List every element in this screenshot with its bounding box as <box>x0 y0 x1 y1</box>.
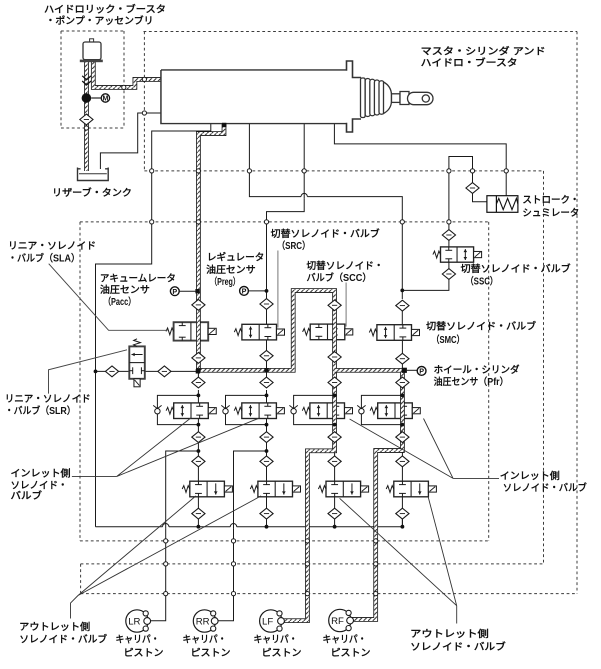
svg-text:アキュームレータ: アキュームレータ <box>100 272 176 284</box>
junction node: bypass bottom <box>333 423 337 427</box>
svg-text:切替ソレノイド・: 切替ソレノイド・ <box>307 259 384 272</box>
check/filter diamond: SCC bottom <box>328 352 341 363</box>
boundary crossing node: pump box right <box>122 85 126 89</box>
svg-text:レギュレータ: レギュレータ <box>207 251 265 264</box>
boundary crossing node: top boundary x=304.2 <box>302 169 306 173</box>
pressure sensor Pacc <box>170 287 179 296</box>
svg-text:・バルブ（SLA）: ・バルブ（SLA） <box>8 251 80 264</box>
svg-text:油圧センサ: 油圧センサ <box>100 283 150 296</box>
svg-text:インレット側: インレット側 <box>500 469 560 482</box>
svg-text:切替ソレノイド・バルブ: 切替ソレノイド・バルブ <box>271 227 380 240</box>
junction node: bypass top <box>265 394 269 398</box>
svg-text:切替ソレノイド・バルブ: 切替ソレノイド・バルブ <box>461 262 571 275</box>
junction node: bypass top <box>333 394 337 398</box>
dashed boundary: pump box right <box>123 31 125 128</box>
check valve inlet valve 4 bypass <box>357 405 365 414</box>
junction node: SLR branch <box>94 370 98 374</box>
check/filter diamond: SSC top <box>442 230 455 241</box>
wire: filter line to stroke simulator <box>473 171 487 202</box>
svg-text:ストローク・: ストローク・ <box>522 194 579 206</box>
dashed boundary: actuator assembly lower-left <box>80 564 82 594</box>
dashed boundary: hydraulic unit right <box>543 171 545 564</box>
high-pressure pipe (hatched): through valve SCC <box>332 323 337 340</box>
check/filter diamond: outlet supply <box>396 456 409 467</box>
svg-text:RF: RF <box>331 616 344 627</box>
svg-text:（Preg）: （Preg） <box>210 275 240 288</box>
check/filter diamond: SLR left <box>105 366 118 377</box>
solenoid valve switching solenoid valve SCC <box>303 324 353 340</box>
check/filter diamond: SMC bottom <box>396 353 409 364</box>
svg-text:・バルブ（SLR）: ・バルブ（SLR） <box>5 404 76 417</box>
master cylinder and hydro booster body <box>161 61 361 132</box>
check/filter diamond: inlet return <box>328 432 341 443</box>
boundary crossing node: valve block top x=151.7 <box>150 220 154 224</box>
svg-text:LR: LR <box>128 617 140 628</box>
wire: outlet valve 3 bottom <box>334 496 336 527</box>
wire: branch to caliper LR <box>151 451 199 621</box>
boundary crossing node: unit bottom x=375.7 <box>374 562 378 566</box>
wire: (diamond gap) inlet valve 4 top <box>401 379 403 390</box>
wire: inlet valve 3 bottom chain <box>334 418 336 447</box>
wire: pipe to inlet valve 2 <box>266 370 268 403</box>
check/filter diamond: outlet supply <box>192 456 205 467</box>
solenoid valve inlet solenoid valve 1 <box>166 403 216 419</box>
svg-text:ホイール・シリンダ: ホイール・シリンダ <box>434 363 520 376</box>
svg-text:（SSC）: （SSC） <box>466 275 498 288</box>
wire: leader: SLR label <box>49 350 128 394</box>
dashed boundary: valve block bottom <box>80 540 489 542</box>
boundary crossing node: assembly bottom x=375.7 <box>374 592 378 596</box>
solenoid valve inlet solenoid valve 2 <box>234 403 284 419</box>
svg-text:キャリパ・: キャリパ・ <box>116 633 160 645</box>
svg-text:ハイドロリック・ブースタ: ハイドロリック・ブースタ <box>44 3 166 16</box>
dashed boundary: actuator assembly right <box>576 32 578 594</box>
pressure sensor Preg <box>240 287 249 296</box>
boundary crossing node: top boundary x=448.9 <box>447 169 451 173</box>
check/filter diamond: outlet supply <box>328 456 341 467</box>
boundary crossing node: assembly bottom x=165.7 <box>164 592 168 596</box>
wire: master cylinder port to switching valve SMC <box>249 124 402 300</box>
wire: pipe elbow to outlet valve 3 <box>334 452 336 481</box>
wire: inlet valve 2 bypass loop <box>226 395 267 424</box>
junction node: bypass top <box>197 394 201 398</box>
pipe junction block: MC booster port <box>222 123 226 127</box>
wire: SMC valve to front pipe <box>401 341 403 369</box>
svg-text:ピストン: ピストン <box>191 647 231 659</box>
svg-text:（SMC）: （SMC） <box>432 333 465 346</box>
dashed boundary: pump box top <box>61 30 124 32</box>
junction node: return line junction <box>265 525 269 529</box>
wire hop (no connection) at SMC feed over SRC feed <box>301 193 307 198</box>
caliper piston RF <box>329 609 354 631</box>
svg-text:ソレノイド・: ソレノイド・ <box>11 480 68 492</box>
pipe junction block: pipe junction SRC <box>264 368 268 372</box>
svg-text:P: P <box>419 367 424 376</box>
caliper piston LR <box>126 610 151 632</box>
wire: inlet valve 2 bottom chain <box>266 418 268 482</box>
linear solenoid valve linear solenoid valve SLR (vertical) <box>129 339 145 387</box>
wire: master cylinder to stroke simulator <box>334 124 506 196</box>
svg-text:ピストン: ピストン <box>262 647 302 659</box>
stroke simulator <box>487 196 518 213</box>
solenoid valve outlet solenoid valve 2 <box>250 481 300 497</box>
junction node: bypass bottom <box>197 423 201 427</box>
wire: master cylinder port to switching valve SRC <box>267 124 305 299</box>
boundary crossing node: unit bottom x=233.5 <box>231 562 235 566</box>
junction node: return line junction <box>401 525 405 529</box>
svg-text:P: P <box>242 287 247 296</box>
boundary crossing node: valve block top x=402.3 <box>400 220 404 224</box>
wire: linear solenoid valve SLR branch <box>96 370 198 372</box>
check/filter diamond: inlet return <box>260 432 273 443</box>
caliper piston RR <box>193 610 218 632</box>
pressure sensor Pfr <box>417 367 426 376</box>
svg-text:ピストン: ピストン <box>331 647 371 659</box>
wire hop (no connection) at return over RR branch <box>230 524 236 529</box>
svg-text:アウトレット側: アウトレット側 <box>19 620 90 633</box>
solenoid valve inlet solenoid valve 3 <box>302 403 352 419</box>
boundary crossing node: top boundary x=472.5 <box>470 169 474 173</box>
high-pressure pipe (hatched): through inlet valve 4 <box>400 402 405 419</box>
boundary crossing node: valve block bottom x=165.7 <box>164 539 168 543</box>
svg-text:ハイドロ・ブースタ: ハイドロ・ブースタ <box>421 56 518 69</box>
svg-text:キャリパ・: キャリパ・ <box>183 633 227 645</box>
check/filter diamond: inlet supply <box>192 377 205 388</box>
high-pressure pipe (hatched): front pressure line to caliper RF <box>335 370 403 619</box>
solenoid valve outlet solenoid valve 1 <box>182 481 232 497</box>
wire: inlet valve 4 bypass loop <box>361 395 402 424</box>
motor M <box>101 94 109 102</box>
boundary crossing node: assembly left (return) <box>142 111 146 115</box>
solenoid valve outlet solenoid valve 4 <box>386 481 436 497</box>
pump check valve chevrons <box>82 76 91 85</box>
solenoid valve outlet solenoid valve 3 <box>318 481 368 497</box>
wire: SRC supply into valve <box>266 309 268 324</box>
wire: leader: SRC label <box>277 251 279 328</box>
wire: branch to caliper RR <box>217 451 267 621</box>
svg-text:バルブ（SCC）: バルブ（SCC） <box>307 271 372 284</box>
wire: inlet valve 4 bottom chain <box>401 418 403 447</box>
wire: SMC supply into valve <box>401 309 403 325</box>
boundary crossing node: valve block bottom x=375.7 <box>374 539 378 543</box>
wire: leader: SLA label <box>49 264 168 331</box>
junction node: caliper RR branch <box>265 449 269 453</box>
high-pressure pipe (hatched): pump suction/accumulator line <box>84 62 89 172</box>
check/filter diamond: SLR right <box>158 366 171 377</box>
svg-text:油圧センサ（Pfr）: 油圧センサ（Pfr） <box>434 375 509 388</box>
wire: SRC valve to rear pipe <box>266 340 268 370</box>
check/filter diamond: SCC top <box>328 300 341 311</box>
check/filter diamond: stroke simulator filter <box>466 183 479 194</box>
svg-text:油圧センサ: 油圧センサ <box>206 263 256 276</box>
check/filter diamond: outlet return <box>192 508 205 519</box>
svg-text:シュミレータ: シュミレータ <box>522 207 579 219</box>
wire: master cylinder return to reserve tank <box>100 113 161 169</box>
boundary crossing node: top boundary x=198.4 <box>196 169 200 173</box>
svg-text:RR: RR <box>196 617 210 628</box>
wire: leader: SCC label <box>345 283 347 327</box>
wire: sensor Preg tap <box>248 290 266 292</box>
wire: outlet valve 2 bottom <box>266 496 268 527</box>
svg-text:ソレノイド・バルブ: ソレノイド・バルブ <box>503 481 587 494</box>
svg-text:キャリパ・: キャリパ・ <box>254 633 298 645</box>
svg-text:ソレノイド・バルブ: ソレノイド・バルブ <box>19 633 107 646</box>
boundary crossing node: valve block top x=448.9 <box>447 220 451 224</box>
check/filter diamond: inlet supply <box>328 377 341 388</box>
junction node: SSC return junction <box>400 289 404 293</box>
check/filter diamond: SLA top <box>192 300 205 311</box>
dashed boundary: hydraulic unit top <box>144 170 543 172</box>
wire hop (no connection) at return over LR branch <box>163 524 169 529</box>
check/filter diamond: SLA bottom <box>192 353 205 364</box>
check/filter diamond: inlet supply <box>396 377 409 388</box>
caliper piston LF <box>260 610 285 632</box>
check/filter diamond: outlet supply <box>260 456 273 467</box>
wire: leader: inlet valves right label <box>350 419 499 479</box>
wire: master cylinder port to reservoir return line <box>96 124 211 527</box>
pipe junction block: SLR line to pipe <box>196 369 200 373</box>
boundary crossing node: assembly left (pressure) <box>142 77 146 81</box>
junction node: Preg junction <box>265 289 269 293</box>
svg-text:バルブ: バルブ <box>11 489 43 502</box>
svg-text:・ポンプ・アッセンブリ: ・ポンプ・アッセンブリ <box>46 14 154 27</box>
junction node: bypass top <box>401 394 405 398</box>
boundary crossing node: valve block bottom x=307.4 <box>305 539 309 543</box>
check valve inlet valve 3 bypass <box>289 405 297 414</box>
solenoid valve inlet solenoid valve 4 <box>370 403 420 419</box>
wire: sensor Pfr tap <box>407 369 417 371</box>
wire: inlet valve 1 bypass loop <box>157 395 198 424</box>
boundary crossing node: assembly bottom x=307.4 <box>305 592 309 596</box>
dashed boundary: actuator assembly bottom <box>81 593 577 595</box>
svg-text:LF: LF <box>262 617 273 628</box>
boundary crossing node: unit bottom x=165.7 <box>164 562 168 566</box>
boundary crossing node: top boundary x=506.2 <box>504 169 508 173</box>
junction node: return line junction <box>333 525 337 529</box>
reserve tank <box>78 168 109 181</box>
check/filter diamond: outlet return <box>260 508 273 519</box>
boundary crossing node: unit bottom x=307.4 <box>305 562 309 566</box>
svg-text:リニア・ソレノイド: リニア・ソレノイド <box>8 240 96 252</box>
check/filter diamond: SRC top <box>260 299 273 310</box>
dashed boundary: actuator assembly top <box>144 31 578 33</box>
high-pressure pipe (hatched): through valve SLA <box>196 321 201 341</box>
svg-text:アウトレット側: アウトレット側 <box>410 627 489 640</box>
dashed boundary: valve block right <box>488 222 490 541</box>
solenoid valve switching solenoid valve SMC <box>369 325 419 341</box>
boundary crossing node: valve block bottom x=233.5 <box>231 539 235 543</box>
wire: outlet valve common return line <box>96 519 403 527</box>
boundary crossing node: assembly bottom x=233.5 <box>231 592 235 596</box>
check/filter diamond: SSC bottom <box>442 269 455 280</box>
check/filter diamond: inlet return <box>396 432 409 443</box>
svg-text:M: M <box>102 96 108 103</box>
svg-text:インレット側: インレット側 <box>11 467 71 480</box>
wire: bridge over boundary (SSC feed) <box>449 157 473 171</box>
svg-text:（Pacc）: （Pacc） <box>104 295 136 308</box>
wire: outlet valve 1 bottom <box>197 496 199 527</box>
check/filter diamond: inlet supply <box>260 377 273 388</box>
wire: pipe elbow to outlet valve 4 <box>401 452 403 481</box>
svg-text:ピストン: ピストン <box>124 647 164 659</box>
boundary crossing node: valve block top x=198.4 <box>196 220 200 224</box>
dashed boundary: actuator assembly upper-left <box>143 32 145 171</box>
junction node: bypass bottom <box>401 423 405 427</box>
push rod and clevis eye <box>361 78 434 118</box>
pipe junction block: pipe junction Pfr/SMC <box>402 368 407 373</box>
solenoid valve switching solenoid valve SRC <box>234 324 284 340</box>
high-pressure pipe (hatched): through inlet valve 3 <box>332 402 337 419</box>
boundary crossing node: valve block top x=266.5 <box>264 220 268 224</box>
svg-text:キャリパ・: キャリパ・ <box>323 633 367 645</box>
wire: inlet valve 1 bottom chain <box>197 418 199 482</box>
check/filter diamond: SRC bottom <box>260 350 273 361</box>
dashed boundary: valve block top <box>80 221 489 223</box>
wire: SSC valve return to SMC line <box>402 262 449 290</box>
pipe junction block: pipe junction SLA <box>196 368 200 372</box>
dashed boundary: hydraulic unit bottom <box>81 563 544 565</box>
pump <box>82 93 92 103</box>
svg-text:ソレノイド・バルブ: ソレノイド・バルブ <box>410 640 506 653</box>
svg-text:切替ソレノイド・バルブ: 切替ソレノイド・バルブ <box>426 320 536 333</box>
boundary crossing node: pump box bottom <box>84 126 88 130</box>
wire: leader: inlet valves left label <box>72 418 259 477</box>
check/filter diamond: outlet return <box>328 508 341 519</box>
wire: sensor Pacc tap <box>179 290 196 292</box>
dashed boundary: valve block left <box>79 222 81 541</box>
dashed boundary: pump box bottom <box>61 127 124 129</box>
check/filter diamond: pump outlet filter <box>80 114 93 125</box>
boundary crossing node: top boundary x=249.4 <box>247 169 251 173</box>
svg-text:P: P <box>172 287 177 296</box>
high-pressure pipe (hatched): pump to master cylinder booster feed <box>93 62 161 88</box>
solenoid valve linear solenoid valve SLA <box>166 322 216 340</box>
junction node: bypass bottom <box>265 423 269 427</box>
junction node: return line junction <box>197 525 201 529</box>
wire: outlet valve 4 bottom <box>401 496 403 527</box>
svg-text:（SRC）: （SRC） <box>277 239 310 252</box>
wire: pipe to inlet valve 1 <box>197 370 199 403</box>
high-pressure pipe (hatched): booster pressure main line to caliper LF <box>198 124 334 621</box>
wire: inlet valve 3 bypass loop <box>294 395 335 424</box>
check/filter diamond: SMC top <box>396 300 409 311</box>
dashed boundary: pump box left <box>60 31 62 128</box>
boundary crossing node: top boundary x=151.7 <box>150 169 154 173</box>
wire: (diamond gap) inlet valve 3 top <box>334 379 336 390</box>
svg-text:リニア・ソレノイド: リニア・ソレノイド <box>5 393 91 405</box>
svg-text:マスタ・シリンダ アンド: マスタ・シリンダ アンド <box>421 45 546 58</box>
junction node: caliper LR branch <box>197 449 201 453</box>
wire: leader: outlet valves right label <box>340 497 457 624</box>
hydraulic booster pump accumulator <box>80 39 103 62</box>
check valve inlet valve 2 bypass <box>221 405 229 414</box>
check/filter diamond: outlet return <box>396 508 409 519</box>
pipe junction block: Pacc tap on pipe <box>195 289 199 293</box>
check/filter diamond: inlet return <box>192 432 205 443</box>
solenoid valve switching solenoid valve SSC <box>433 247 482 262</box>
svg-text:リザーブ・タンク: リザーブ・タンク <box>52 186 132 199</box>
check valve inlet valve 1 bypass <box>153 405 161 414</box>
wire: stroke simulator line to valve SSC <box>448 171 450 247</box>
wire: leader: outlet valves left label <box>71 496 262 619</box>
